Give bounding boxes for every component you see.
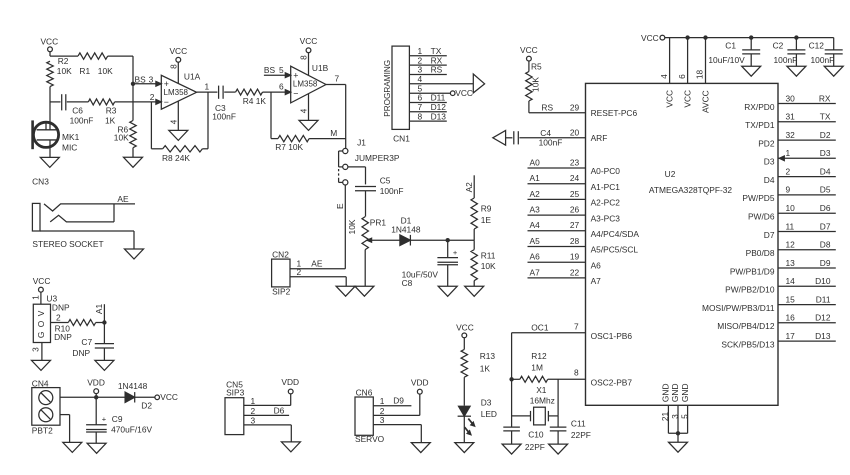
ground below C1 bbox=[742, 66, 761, 76]
svg-text:30: 30 bbox=[786, 93, 796, 103]
svg-text:ARF: ARF bbox=[591, 133, 608, 143]
wire CN5 pin2 net D6 bbox=[244, 406, 289, 416]
svg-text:E: E bbox=[335, 203, 345, 209]
svg-text:A2: A2 bbox=[530, 189, 541, 199]
svg-text:A1: A1 bbox=[94, 304, 104, 315]
connector CN6 bbox=[355, 387, 385, 444]
svg-text:2: 2 bbox=[251, 406, 256, 416]
resistor R7 bbox=[275, 135, 309, 152]
svg-text:VCC: VCC bbox=[641, 33, 659, 43]
wire net A5 to pin 28 bbox=[528, 236, 639, 255]
svg-text:R5: R5 bbox=[531, 62, 542, 72]
svg-text:PW/D6: PW/D6 bbox=[748, 212, 775, 222]
wire net D8 pin 12 bbox=[746, 240, 836, 259]
wire net D9 pin 13 bbox=[730, 258, 836, 277]
svg-text:VCC: VCC bbox=[169, 46, 187, 56]
svg-text:A7: A7 bbox=[591, 276, 602, 286]
svg-text:D3: D3 bbox=[481, 397, 492, 407]
ground below CN3 bbox=[125, 249, 144, 259]
ground below R6 bbox=[124, 148, 143, 168]
wire net D11 pin 15 bbox=[702, 294, 836, 313]
svg-text:−: − bbox=[293, 89, 298, 99]
svg-text:A2-PC2: A2-PC2 bbox=[591, 198, 621, 208]
svg-text:2: 2 bbox=[297, 267, 302, 277]
svg-text:VCC: VCC bbox=[683, 90, 693, 108]
svg-text:A5: A5 bbox=[530, 236, 541, 246]
svg-text:CN6: CN6 bbox=[356, 387, 373, 397]
connector CN1 bbox=[383, 46, 410, 143]
svg-text:10K: 10K bbox=[347, 219, 357, 234]
svg-text:A0-PC0: A0-PC0 bbox=[591, 166, 621, 176]
capacitor C12 bbox=[809, 38, 843, 67]
wire net RS to pin29 bbox=[529, 101, 586, 113]
svg-text:J1: J1 bbox=[357, 138, 366, 148]
svg-text:10K: 10K bbox=[57, 66, 72, 76]
svg-text:CN4: CN4 bbox=[32, 378, 49, 388]
svg-text:14: 14 bbox=[786, 276, 796, 286]
svg-text:C11: C11 bbox=[571, 418, 586, 428]
svg-text:D3: D3 bbox=[764, 157, 775, 167]
svg-text:D4: D4 bbox=[820, 166, 831, 176]
svg-text:3: 3 bbox=[251, 415, 256, 425]
resistor R5 bbox=[526, 62, 542, 101]
wire CN1 pin 1 net TX bbox=[409, 46, 446, 56]
wire CN2 pin2 to ground bbox=[290, 277, 346, 286]
capacitor C5 bbox=[355, 176, 403, 196]
svg-text:AE: AE bbox=[311, 258, 323, 268]
wire net RX pin 30 bbox=[744, 93, 836, 112]
wire node M bbox=[309, 128, 346, 139]
svg-text:D5: D5 bbox=[820, 185, 831, 195]
svg-text:JUMPER3P: JUMPER3P bbox=[355, 153, 400, 163]
svg-text:1: 1 bbox=[251, 396, 256, 406]
diode D2 bbox=[118, 381, 152, 410]
wire net A3 to pin 26 bbox=[528, 205, 621, 224]
crystal X1 bbox=[512, 379, 558, 427]
svg-text:MISO/PB4/D12: MISO/PB4/D12 bbox=[717, 321, 775, 331]
svg-text:VDD: VDD bbox=[411, 377, 429, 387]
ground below C2 bbox=[787, 66, 806, 76]
svg-text:CN3: CN3 bbox=[32, 177, 49, 187]
svg-text:3: 3 bbox=[31, 347, 41, 352]
wire R1 to node BS bbox=[108, 56, 133, 84]
wire D2 to OVCC bbox=[135, 396, 155, 398]
power symbol OVCC (D2) bbox=[155, 392, 178, 402]
svg-text:D7: D7 bbox=[764, 230, 775, 240]
svg-text:D3: D3 bbox=[820, 148, 831, 158]
wire CN4 pin1 to VDD node bbox=[60, 396, 96, 398]
svg-text:10K: 10K bbox=[114, 132, 129, 142]
svg-text:7: 7 bbox=[335, 74, 340, 84]
wire net D5 pin 9 bbox=[742, 185, 835, 204]
svg-text:D4: D4 bbox=[764, 175, 775, 185]
svg-text:C5: C5 bbox=[380, 176, 391, 186]
svg-text:MIC: MIC bbox=[62, 143, 77, 153]
node C8 junction bbox=[446, 238, 450, 242]
pin labels VCC/AVCC inside U2 bbox=[665, 90, 711, 113]
resistor R10 bbox=[54, 320, 104, 342]
svg-text:13: 13 bbox=[786, 258, 796, 268]
svg-text:VDD: VDD bbox=[87, 378, 105, 388]
wire VCC0 rail bbox=[659, 35, 834, 83]
svg-text:D9: D9 bbox=[820, 258, 831, 268]
svg-text:3: 3 bbox=[380, 415, 385, 425]
capacitor C9 bbox=[86, 397, 152, 443]
svg-text:D11: D11 bbox=[816, 294, 831, 304]
svg-text:4: 4 bbox=[659, 74, 669, 79]
svg-text:C6: C6 bbox=[72, 106, 83, 116]
svg-text:10uF/10V: 10uF/10V bbox=[708, 55, 745, 65]
svg-text:MK1: MK1 bbox=[62, 132, 80, 142]
wire BS to U1A pin3 bbox=[133, 81, 161, 86]
ground below C10 bbox=[502, 444, 521, 454]
svg-text:4: 4 bbox=[169, 119, 179, 124]
svg-text:LED: LED bbox=[481, 409, 497, 419]
svg-text:A3: A3 bbox=[530, 205, 541, 215]
svg-text:D13: D13 bbox=[431, 111, 447, 121]
svg-text:16Mhz: 16Mhz bbox=[530, 395, 555, 405]
svg-text:17: 17 bbox=[786, 331, 796, 341]
wire net OC1 to pin7 bbox=[512, 322, 633, 380]
svg-text:2: 2 bbox=[150, 92, 155, 102]
svg-text:STEREO SOCKET: STEREO SOCKET bbox=[32, 239, 103, 249]
svg-text:5: 5 bbox=[679, 414, 689, 419]
svg-text:100nF: 100nF bbox=[774, 55, 798, 65]
ground below CN2 pin2 bbox=[336, 286, 355, 296]
svg-text:A4: A4 bbox=[530, 220, 541, 230]
svg-text:VCC: VCC bbox=[300, 36, 318, 46]
svg-text:PROGRAMING: PROGRAMING bbox=[383, 60, 392, 117]
svg-text:SCK/PB5/D13: SCK/PB5/D13 bbox=[721, 339, 774, 349]
svg-text:100nF: 100nF bbox=[70, 115, 94, 125]
svg-text:G: G bbox=[36, 332, 46, 339]
svg-text:1K: 1K bbox=[480, 363, 491, 373]
wire C5 to PR1 bbox=[365, 191, 367, 217]
capacitor C2 bbox=[773, 35, 806, 66]
wire R2 to MK1 bbox=[50, 87, 61, 130]
svg-text:1N4148: 1N4148 bbox=[391, 224, 421, 234]
svg-text:PW/PD5: PW/PD5 bbox=[742, 193, 774, 203]
wire CN1 pin 8 net D13 bbox=[409, 111, 446, 121]
svg-text:ATMEGA328TQPF-32: ATMEGA328TQPF-32 bbox=[649, 185, 732, 195]
svg-text:SIP3: SIP3 bbox=[226, 388, 244, 398]
svg-text:2: 2 bbox=[56, 312, 61, 322]
resistor R9 bbox=[471, 198, 492, 240]
svg-text:+: + bbox=[453, 248, 458, 257]
wire D3 to ground bbox=[463, 415, 465, 442]
svg-text:V: V bbox=[36, 310, 46, 316]
svg-text:VCC: VCC bbox=[455, 88, 473, 98]
resistor R6 bbox=[114, 84, 136, 148]
wire CN6 pin3 to ground bbox=[373, 425, 421, 443]
svg-text:PR1: PR1 bbox=[370, 217, 387, 227]
svg-text:RX: RX bbox=[819, 93, 831, 103]
wire R3 to U1A pin2 bbox=[115, 92, 162, 104]
svg-text:D12: D12 bbox=[815, 313, 831, 323]
ground below U3 bbox=[32, 360, 51, 370]
svg-text:24: 24 bbox=[570, 173, 580, 183]
svg-text:CN1: CN1 bbox=[393, 134, 410, 144]
wire net D3 pin 1 bbox=[764, 148, 836, 167]
svg-text:12: 12 bbox=[786, 240, 796, 250]
svg-text:A4/PC4/SDA: A4/PC4/SDA bbox=[591, 229, 640, 239]
svg-text:VCC: VCC bbox=[160, 392, 178, 402]
svg-text:SERVO: SERVO bbox=[355, 434, 385, 444]
node OC1 junction bbox=[509, 377, 513, 381]
ground below D3 bbox=[455, 443, 474, 453]
wire U1B output pin7 bbox=[326, 74, 346, 149]
svg-text:OSC1-PB6: OSC1-PB6 bbox=[591, 331, 633, 341]
resistor R13 bbox=[461, 349, 495, 377]
svg-text:CN2: CN2 bbox=[272, 249, 289, 259]
ground below C9 bbox=[87, 443, 106, 453]
power symbol VCC (mic bias) bbox=[40, 37, 58, 52]
svg-text:22PF: 22PF bbox=[571, 430, 591, 440]
svg-text:20: 20 bbox=[570, 127, 580, 137]
svg-text:VDD: VDD bbox=[281, 377, 299, 387]
svg-text:VCC: VCC bbox=[520, 45, 538, 55]
svg-text:U2: U2 bbox=[665, 169, 676, 179]
svg-text:C2: C2 bbox=[773, 40, 784, 50]
svg-text:DNP: DNP bbox=[72, 348, 90, 358]
svg-text:A6: A6 bbox=[591, 260, 602, 270]
svg-text:1K: 1K bbox=[105, 115, 116, 125]
wire CN5 pin3 to ground bbox=[244, 425, 291, 442]
svg-text:R11: R11 bbox=[481, 251, 496, 261]
LED D3 bbox=[458, 397, 497, 435]
connector CN5 bbox=[225, 379, 256, 434]
svg-text:O: O bbox=[36, 320, 46, 327]
node VDD junction bbox=[94, 395, 98, 399]
ground below CN4 bbox=[63, 442, 82, 452]
diode D1 bbox=[391, 215, 421, 245]
svg-text:C8: C8 bbox=[402, 278, 413, 288]
svg-text:1: 1 bbox=[31, 295, 41, 300]
node BS junction bbox=[131, 75, 154, 86]
ground U1A pin4 bbox=[169, 101, 188, 140]
svg-text:LM358: LM358 bbox=[293, 79, 318, 88]
wire net A7 to pin 22 bbox=[528, 267, 602, 286]
svg-text:D7: D7 bbox=[820, 221, 831, 231]
svg-text:D6: D6 bbox=[274, 406, 285, 416]
ground below C7 bbox=[95, 360, 114, 370]
ground below R11 bbox=[465, 286, 484, 296]
svg-text:22PF: 22PF bbox=[525, 442, 545, 452]
power symbol VCC (U1A pin8) bbox=[169, 46, 188, 84]
capacitor C8 bbox=[402, 240, 458, 288]
svg-text:1: 1 bbox=[786, 148, 791, 158]
svg-text:15: 15 bbox=[786, 294, 796, 304]
wire J1 pin2 to C5 bbox=[348, 167, 366, 185]
ground below U2 bbox=[669, 442, 688, 452]
svg-text:VCC: VCC bbox=[665, 90, 675, 108]
svg-text:−: − bbox=[164, 97, 169, 107]
svg-text:31: 31 bbox=[786, 112, 796, 122]
svg-text:TX: TX bbox=[820, 112, 831, 122]
ground below C8 bbox=[438, 286, 457, 296]
wire R8 to U1A output bbox=[202, 92, 208, 149]
wire net E bbox=[290, 185, 345, 269]
svg-text:LM358: LM358 bbox=[164, 88, 189, 97]
svg-text:C7: C7 bbox=[81, 337, 92, 347]
wire CN6 pin2 to VDD bbox=[373, 394, 420, 415]
svg-text:21: 21 bbox=[660, 412, 670, 422]
svg-text:VCC: VCC bbox=[456, 323, 474, 333]
svg-text:26: 26 bbox=[570, 205, 580, 215]
microphone MK1 bbox=[33, 120, 80, 157]
svg-text:R7 10K: R7 10K bbox=[275, 142, 303, 152]
wire net A1 to pin 24 bbox=[528, 173, 621, 192]
svg-text:32: 32 bbox=[786, 130, 796, 140]
svg-text:D13: D13 bbox=[815, 331, 831, 341]
wire CN4 pin2 to ground bbox=[60, 415, 70, 443]
connector CN3 stereo socket bbox=[32, 177, 135, 250]
capacitor C10 bbox=[503, 427, 545, 452]
svg-text:TX/PD1: TX/PD1 bbox=[745, 120, 775, 130]
wire net D4 pin 2 bbox=[764, 166, 836, 185]
power symbol VDD (CN4) bbox=[87, 378, 105, 398]
resistor R12 bbox=[512, 351, 633, 387]
svg-text:100nF: 100nF bbox=[539, 137, 563, 147]
svg-text:C10: C10 bbox=[528, 430, 544, 440]
wire net A1 bbox=[94, 304, 104, 323]
svg-text:10K: 10K bbox=[531, 77, 541, 92]
resistor R2 bbox=[47, 56, 72, 87]
svg-text:100nF: 100nF bbox=[811, 55, 835, 65]
connector CN4 bbox=[32, 378, 60, 435]
capacitor C11 bbox=[550, 416, 591, 444]
svg-text:RS: RS bbox=[431, 65, 443, 75]
wire U3 pin2 bbox=[51, 312, 69, 322]
power symbol VCC (U1B pin8) bbox=[299, 36, 318, 75]
wire CN1 pin 5 bbox=[409, 83, 450, 93]
svg-text:MOSI/PW/PB3/D11: MOSI/PW/PB3/D11 bbox=[702, 303, 775, 313]
power symbol VCC0 bbox=[641, 33, 665, 43]
ground below C12 bbox=[824, 66, 843, 76]
svg-text:5: 5 bbox=[279, 65, 284, 75]
svg-text:D10: D10 bbox=[815, 276, 831, 286]
svg-text:29: 29 bbox=[570, 102, 580, 112]
svg-text:R3: R3 bbox=[106, 106, 117, 116]
svg-text:23: 23 bbox=[570, 157, 580, 167]
wire net D10 pin 14 bbox=[725, 276, 836, 295]
svg-text:OSC2-PB7: OSC2-PB7 bbox=[591, 377, 633, 387]
connector CN2 bbox=[272, 249, 323, 296]
wire net BS to U1B pin5 bbox=[264, 65, 291, 78]
svg-text:C9: C9 bbox=[112, 414, 123, 424]
svg-text:D8: D8 bbox=[820, 240, 831, 250]
svg-text:DNP: DNP bbox=[52, 303, 70, 313]
wire CN1 pin 6 net D11 bbox=[409, 93, 446, 103]
svg-text:SIP2: SIP2 bbox=[272, 287, 290, 297]
svg-text:A0: A0 bbox=[530, 157, 541, 167]
svg-text:GND: GND bbox=[661, 383, 671, 402]
ground U1B pin4 bbox=[299, 94, 318, 131]
svg-text:4: 4 bbox=[299, 108, 309, 113]
svg-text:10K: 10K bbox=[98, 66, 113, 76]
svg-text:8: 8 bbox=[299, 55, 309, 60]
svg-text:R4 1K: R4 1K bbox=[243, 96, 267, 106]
wire U3 pin3 to ground bbox=[31, 343, 42, 361]
svg-text:100nF: 100nF bbox=[212, 112, 236, 122]
svg-text:AE: AE bbox=[117, 194, 129, 204]
svg-text:U1A: U1A bbox=[184, 72, 201, 82]
ground below C11 bbox=[549, 444, 568, 454]
svg-text:PD2: PD2 bbox=[758, 138, 775, 148]
node A1 junction bbox=[102, 320, 106, 324]
svg-text:A7: A7 bbox=[530, 267, 541, 277]
wire VCC to R1/R2 bbox=[50, 52, 78, 56]
wire net A0 to pin 23 bbox=[528, 157, 621, 176]
svg-text:7: 7 bbox=[574, 322, 579, 332]
wire net A4 to pin 27 bbox=[528, 220, 640, 239]
power symbol OVCC (CN1 pin5) bbox=[450, 88, 473, 98]
wire feedback U1A pin2 bbox=[151, 102, 162, 149]
svg-text:X1: X1 bbox=[536, 385, 547, 395]
power symbol VDD (CN5) bbox=[281, 377, 299, 394]
svg-text:+: + bbox=[102, 415, 107, 424]
svg-text:8: 8 bbox=[574, 367, 579, 377]
svg-text:R2: R2 bbox=[58, 56, 69, 66]
wire CN1 pin 2 net RX bbox=[409, 55, 446, 65]
IC U2 ATMEGA328TQPF-32 bbox=[586, 83, 779, 405]
capacitor C7 bbox=[72, 323, 114, 361]
resistor R4 bbox=[236, 89, 267, 106]
wire CN1 pin 4 bbox=[409, 74, 473, 84]
wire U1A output pin1 bbox=[197, 82, 218, 93]
svg-text:R1: R1 bbox=[79, 66, 90, 76]
wire net D6 pin 10 bbox=[748, 203, 836, 222]
power symbol VCC (R5) bbox=[520, 45, 538, 71]
svg-text:6: 6 bbox=[279, 82, 284, 92]
svg-text:28: 28 bbox=[570, 236, 580, 246]
svg-text:27: 27 bbox=[570, 220, 580, 230]
svg-text:25: 25 bbox=[570, 189, 580, 199]
bus arrow CN1 pin4 bbox=[473, 74, 484, 93]
capacitor C4 bbox=[506, 128, 563, 147]
wire net D7 pin 11 bbox=[764, 221, 836, 240]
svg-text:1E: 1E bbox=[481, 215, 492, 225]
svg-text:11: 11 bbox=[786, 221, 795, 231]
wire net A2 bbox=[464, 175, 474, 198]
svg-text:U1B: U1B bbox=[312, 63, 329, 73]
svg-text:C1: C1 bbox=[725, 40, 736, 50]
regulator U3 bbox=[33, 294, 70, 343]
svg-text:1: 1 bbox=[205, 82, 210, 92]
resistor R8 bbox=[162, 146, 202, 163]
svg-text:D6: D6 bbox=[820, 203, 831, 213]
wire GND pins 21/3/5 bbox=[660, 383, 690, 442]
input arrow ARF bbox=[493, 130, 506, 145]
power symbol VDD (CN6) bbox=[411, 377, 429, 394]
ground below CN6 bbox=[411, 443, 430, 453]
svg-text:A1: A1 bbox=[530, 173, 541, 183]
svg-text:1N4148: 1N4148 bbox=[118, 381, 148, 391]
svg-text:8: 8 bbox=[169, 64, 179, 69]
wire R4 to U1B pin6 bbox=[263, 82, 291, 95]
svg-text:BS: BS bbox=[135, 75, 147, 85]
capacitor C3 bbox=[212, 86, 236, 122]
resistor R1 bbox=[78, 53, 113, 76]
jumper J1 bbox=[339, 138, 400, 185]
svg-text:10K: 10K bbox=[481, 261, 496, 271]
svg-text:M: M bbox=[330, 128, 337, 138]
svg-text:RX/PD0: RX/PD0 bbox=[744, 102, 775, 112]
svg-text:R9: R9 bbox=[481, 203, 492, 213]
svg-text:VCC: VCC bbox=[33, 276, 51, 286]
wire CN5 pin1 to VDD bbox=[244, 394, 291, 406]
svg-text:D2: D2 bbox=[141, 400, 152, 410]
